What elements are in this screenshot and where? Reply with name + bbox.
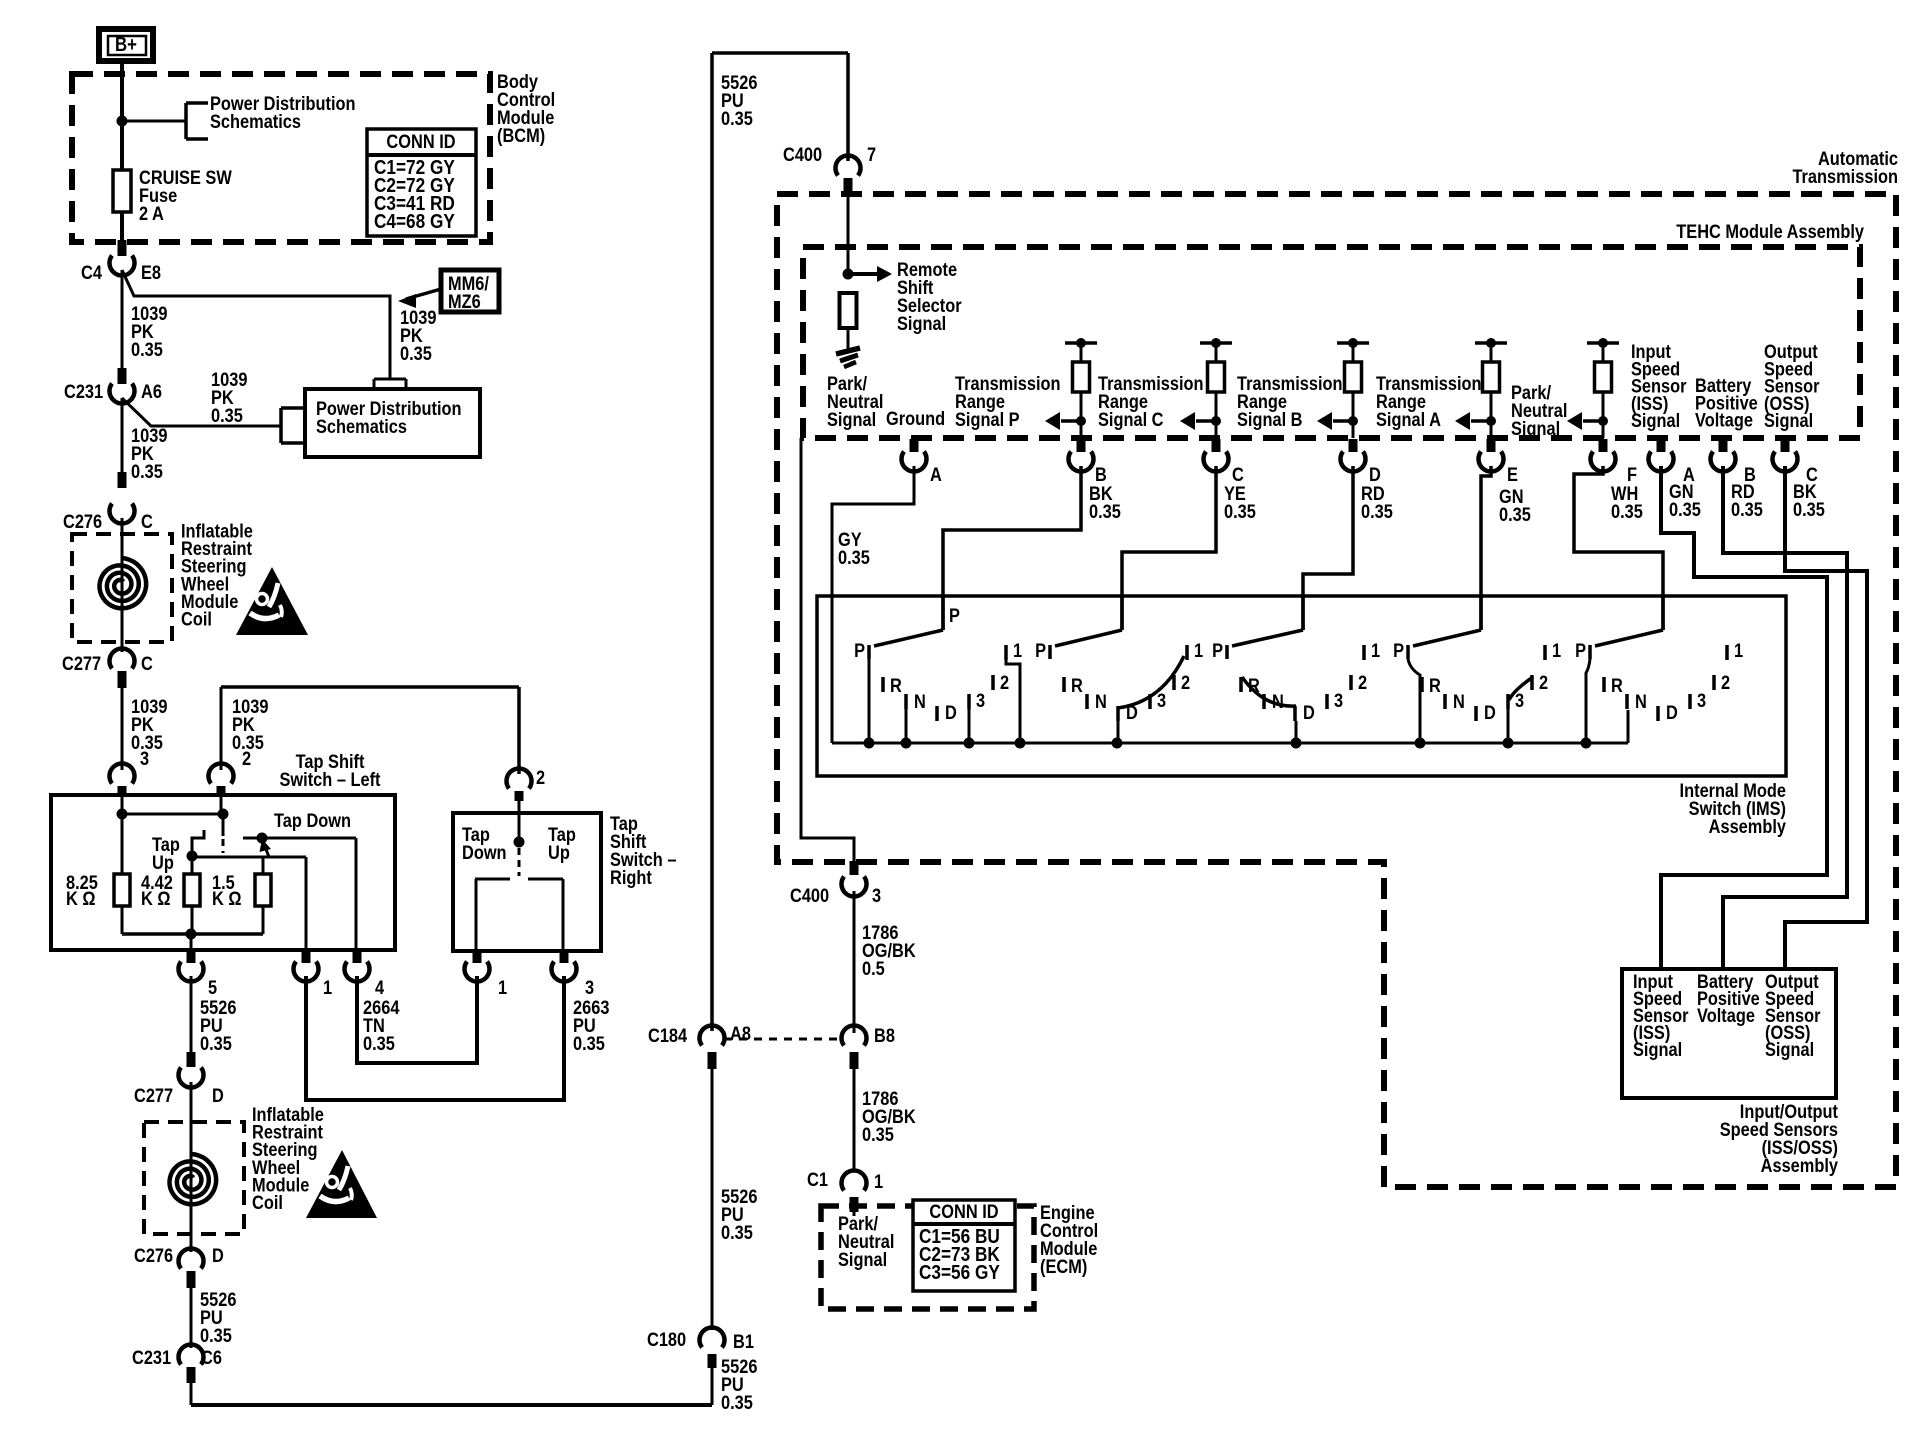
svg-text:Signal: Signal — [897, 313, 946, 335]
svg-text:P: P — [1393, 640, 1404, 662]
svg-text:A6: A6 — [141, 381, 162, 403]
svg-text:Signal: Signal — [827, 409, 876, 431]
svg-text:C180: C180 — [647, 1329, 686, 1351]
svg-text:N: N — [1635, 691, 1647, 713]
svg-text:Signal A: Signal A — [1376, 409, 1441, 431]
svg-text:1: 1 — [1013, 640, 1022, 662]
svg-text:N: N — [914, 691, 926, 713]
svg-text:P: P — [1575, 640, 1586, 662]
svg-text:1: 1 — [1194, 640, 1203, 662]
svg-text:Signal: Signal — [1633, 1039, 1682, 1061]
svg-text:Signal: Signal — [838, 1249, 887, 1271]
svg-text:P: P — [949, 605, 960, 627]
svg-text:C4=68 GY: C4=68 GY — [374, 211, 455, 234]
svg-text:0.35: 0.35 — [400, 343, 432, 365]
svg-text:0.35: 0.35 — [1669, 499, 1701, 521]
svg-text:D: D — [1484, 702, 1496, 724]
svg-text:0.35: 0.35 — [1089, 501, 1121, 523]
svg-text:0.5: 0.5 — [862, 958, 885, 980]
svg-text:0.35: 0.35 — [1361, 501, 1393, 523]
svg-text:C400: C400 — [790, 885, 829, 907]
svg-text:C277: C277 — [134, 1085, 173, 1107]
svg-text:2: 2 — [536, 767, 545, 789]
svg-text:0.35: 0.35 — [131, 461, 163, 483]
svg-text:C3=56 GY: C3=56 GY — [919, 1262, 1000, 1285]
svg-text:Down: Down — [462, 842, 507, 864]
svg-text:Switch – Left: Switch – Left — [280, 769, 381, 791]
svg-text:2: 2 — [242, 748, 251, 770]
svg-text:Coil: Coil — [181, 608, 212, 630]
svg-text:C276: C276 — [63, 511, 102, 533]
svg-text:C231: C231 — [64, 381, 103, 403]
svg-text:P: P — [1035, 640, 1046, 662]
svg-text:C184: C184 — [648, 1025, 687, 1047]
svg-text:D: D — [1303, 702, 1315, 724]
svg-text:0.35: 0.35 — [200, 1033, 232, 1055]
svg-text:K Ω: K Ω — [212, 888, 242, 910]
svg-text:0.35: 0.35 — [211, 405, 243, 427]
svg-text:0.35: 0.35 — [363, 1033, 395, 1055]
svg-text:0.35: 0.35 — [838, 547, 870, 569]
svg-text:Transmission: Transmission — [1792, 166, 1898, 188]
svg-text:C276: C276 — [134, 1245, 173, 1267]
svg-text:R: R — [890, 675, 902, 697]
svg-text:CONN ID: CONN ID — [386, 131, 455, 153]
svg-text:E8: E8 — [141, 262, 161, 284]
svg-text:Coil: Coil — [252, 1192, 283, 1214]
svg-text:3: 3 — [1697, 690, 1706, 712]
svg-text:MZ6: MZ6 — [448, 291, 481, 313]
svg-text:E: E — [1507, 464, 1518, 486]
svg-text:Up: Up — [152, 852, 174, 874]
svg-text:Right: Right — [610, 867, 652, 889]
svg-text:D: D — [945, 702, 957, 724]
svg-text:1: 1 — [874, 1171, 883, 1193]
svg-text:2: 2 — [1181, 672, 1190, 694]
svg-text:Signal B: Signal B — [1237, 409, 1303, 431]
svg-text:7: 7 — [867, 144, 876, 166]
svg-text:Schematics: Schematics — [210, 111, 301, 133]
svg-text:0.35: 0.35 — [721, 1392, 753, 1414]
svg-text:0.35: 0.35 — [862, 1124, 894, 1146]
svg-text:3: 3 — [140, 748, 149, 770]
svg-text:2: 2 — [1721, 672, 1730, 694]
svg-text:C: C — [141, 653, 153, 675]
svg-text:K Ω: K Ω — [66, 888, 96, 910]
svg-text:3: 3 — [1334, 690, 1343, 712]
svg-text:R: R — [1071, 675, 1083, 697]
svg-text:0.35: 0.35 — [721, 1222, 753, 1244]
svg-text:C1: C1 — [807, 1169, 828, 1191]
svg-text:A8: A8 — [730, 1023, 751, 1045]
svg-text:Ground: Ground — [886, 408, 945, 430]
svg-text:P: P — [1212, 640, 1223, 662]
svg-text:1: 1 — [323, 977, 332, 999]
svg-text:B8: B8 — [874, 1025, 895, 1047]
svg-text:D: D — [212, 1245, 224, 1267]
svg-text:(ECM): (ECM) — [1040, 1256, 1087, 1278]
svg-text:3: 3 — [976, 690, 985, 712]
svg-text:B1: B1 — [733, 1331, 754, 1353]
svg-text:3: 3 — [1515, 690, 1524, 712]
svg-text:C400: C400 — [783, 144, 822, 166]
svg-text:C6: C6 — [201, 1347, 222, 1369]
svg-text:0.35: 0.35 — [721, 108, 753, 130]
svg-text:1: 1 — [1734, 640, 1743, 662]
svg-text:Signal: Signal — [1511, 418, 1560, 440]
svg-text:C231: C231 — [132, 1347, 171, 1369]
svg-text:0.35: 0.35 — [131, 339, 163, 361]
svg-text:0.35: 0.35 — [200, 1325, 232, 1347]
svg-text:Signal: Signal — [1765, 1039, 1814, 1061]
svg-text:Signal C: Signal C — [1098, 409, 1164, 431]
svg-text:1: 1 — [1552, 640, 1561, 662]
svg-text:4: 4 — [375, 977, 384, 999]
svg-text:P: P — [854, 640, 865, 662]
svg-text:B+: B+ — [115, 33, 137, 56]
svg-text:2: 2 — [1539, 672, 1548, 694]
svg-text:D: D — [1666, 702, 1678, 724]
svg-text:3: 3 — [585, 977, 594, 999]
svg-text:D: D — [212, 1085, 224, 1107]
svg-text:0.35: 0.35 — [1224, 501, 1256, 523]
svg-text:TEHC Module Assembly: TEHC Module Assembly — [1676, 221, 1864, 243]
svg-text:C: C — [141, 511, 153, 533]
svg-text:Voltage: Voltage — [1697, 1005, 1755, 1027]
svg-text:Signal: Signal — [1631, 410, 1680, 432]
svg-text:N: N — [1095, 691, 1107, 713]
svg-text:3: 3 — [1157, 690, 1166, 712]
svg-text:0.35: 0.35 — [1499, 504, 1531, 526]
svg-text:Voltage: Voltage — [1695, 409, 1753, 431]
svg-text:3: 3 — [872, 885, 881, 907]
svg-text:R: R — [1429, 675, 1441, 697]
svg-text:C277: C277 — [62, 653, 101, 675]
svg-text:Assembly: Assembly — [1761, 1155, 1838, 1177]
svg-text:Signal: Signal — [1764, 410, 1813, 432]
svg-text:Signal P: Signal P — [955, 409, 1020, 431]
svg-text:CONN ID: CONN ID — [929, 1201, 998, 1223]
svg-text:1: 1 — [1371, 640, 1380, 662]
svg-text:A: A — [930, 464, 942, 486]
svg-text:1: 1 — [498, 977, 507, 999]
svg-text:(BCM): (BCM) — [497, 125, 545, 147]
svg-text:2 A: 2 A — [139, 203, 164, 225]
svg-text:C4: C4 — [81, 262, 102, 284]
svg-text:K Ω: K Ω — [141, 888, 171, 910]
svg-text:Up: Up — [548, 842, 570, 864]
svg-text:Schematics: Schematics — [316, 416, 407, 438]
svg-text:5: 5 — [208, 977, 217, 999]
svg-text:Tap Down: Tap Down — [274, 810, 351, 832]
svg-text:0.35: 0.35 — [1793, 499, 1825, 521]
svg-text:0.35: 0.35 — [573, 1033, 605, 1055]
svg-text:Assembly: Assembly — [1709, 816, 1786, 838]
svg-text:0.35: 0.35 — [1731, 499, 1763, 521]
svg-text:0.35: 0.35 — [1611, 501, 1643, 523]
svg-text:2: 2 — [1358, 672, 1367, 694]
svg-text:2: 2 — [1000, 672, 1009, 694]
svg-text:R: R — [1611, 675, 1623, 697]
svg-text:N: N — [1453, 691, 1465, 713]
